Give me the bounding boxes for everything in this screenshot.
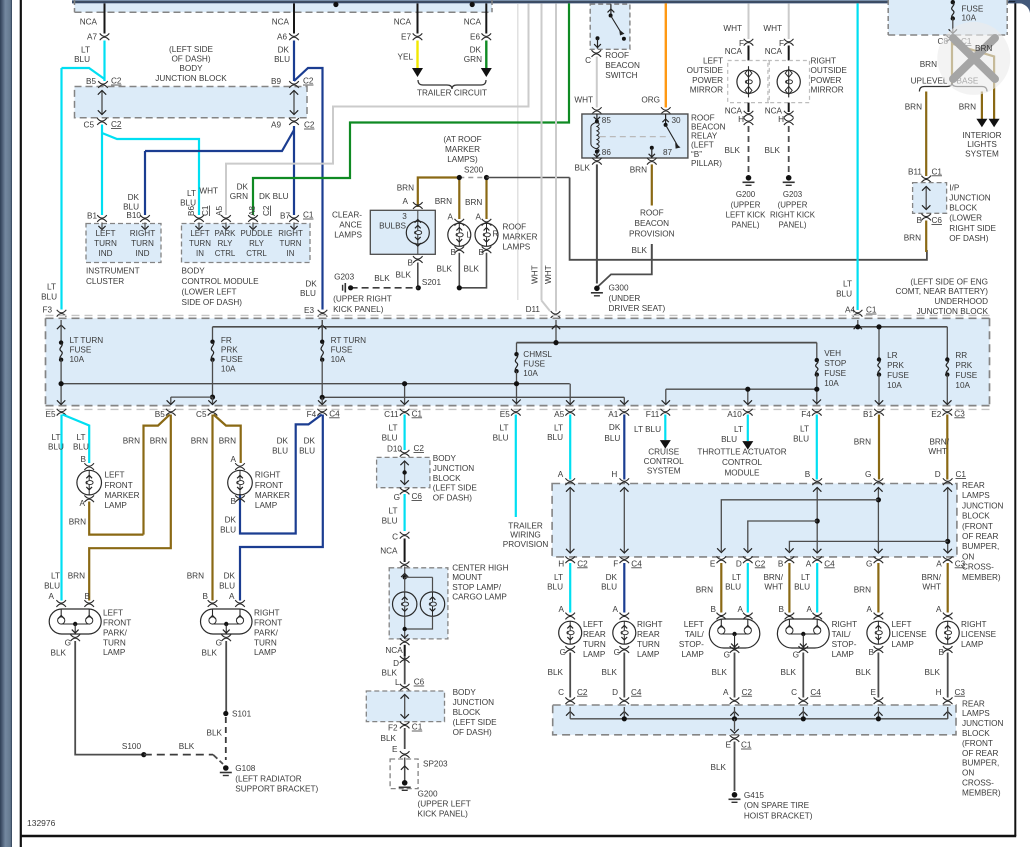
svg-text:FUSE: FUSE	[523, 360, 545, 369]
svg-text:JUNCTION: JUNCTION	[949, 194, 990, 203]
svg-text:G: G	[793, 650, 799, 659]
svg-text:E2: E2	[931, 410, 941, 419]
svg-text:SWITCH: SWITCH	[605, 71, 637, 80]
svg-text:G: G	[724, 650, 730, 659]
svg-text:TRAILER CIRCUIT: TRAILER CIRCUIT	[417, 89, 487, 98]
svg-text:OUTSIDE: OUTSIDE	[687, 66, 724, 75]
svg-text:RIGHT: RIGHT	[278, 229, 303, 238]
svg-text:MIRROR: MIRROR	[690, 86, 723, 95]
svg-text:IN: IN	[287, 249, 295, 258]
svg-text:FRONT: FRONT	[105, 481, 133, 490]
svg-text:LEFT: LEFT	[190, 229, 209, 238]
svg-text:I/P: I/P	[949, 183, 960, 192]
svg-text:PARK/: PARK/	[103, 628, 128, 637]
svg-text:CONTROL MODULE: CONTROL MODULE	[182, 277, 260, 286]
svg-text:DK: DK	[470, 46, 482, 55]
svg-text:MARKER: MARKER	[445, 145, 480, 154]
svg-text:NCA: NCA	[765, 47, 783, 56]
svg-text:KICK PANEL): KICK PANEL)	[333, 305, 384, 314]
svg-text:BRN: BRN	[150, 437, 167, 446]
svg-text:C4: C4	[631, 559, 642, 568]
svg-text:BLK: BLK	[712, 668, 728, 677]
svg-text:ROOF: ROOF	[691, 113, 715, 122]
svg-text:ORG: ORG	[641, 95, 660, 104]
svg-text:10A: 10A	[824, 379, 839, 388]
svg-text:LAMP: LAMP	[832, 650, 855, 659]
svg-text:CENTER HIGH: CENTER HIGH	[452, 564, 508, 573]
svg-text:NCA: NCA	[464, 18, 482, 27]
svg-text:CRUISE: CRUISE	[648, 447, 679, 456]
svg-text:B5: B5	[155, 410, 165, 419]
svg-text:IND: IND	[135, 249, 149, 258]
svg-text:REAR: REAR	[962, 481, 985, 490]
svg-text:DK: DK	[606, 573, 618, 582]
svg-text:C2: C2	[577, 559, 588, 568]
svg-text:TURN: TURN	[254, 638, 277, 647]
svg-text:FUSE: FUSE	[70, 346, 92, 355]
svg-text:TAIL/: TAIL/	[832, 630, 852, 639]
svg-text:10A: 10A	[887, 381, 902, 390]
svg-text:C2: C2	[742, 688, 753, 697]
svg-text:A: A	[403, 197, 409, 206]
svg-text:IN: IN	[196, 249, 204, 258]
svg-text:BLU: BLU	[219, 581, 235, 590]
svg-text:PARK/: PARK/	[254, 628, 279, 637]
svg-text:LICENSE: LICENSE	[892, 630, 928, 639]
svg-text:FRONT: FRONT	[255, 481, 283, 490]
svg-text:RT TURN: RT TURN	[331, 336, 367, 345]
svg-text:BLOCK: BLOCK	[962, 512, 990, 521]
svg-text:D11: D11	[526, 305, 541, 314]
svg-text:E5: E5	[45, 410, 55, 419]
svg-text:ANCE: ANCE	[339, 220, 362, 229]
svg-text:BRN: BRN	[630, 165, 647, 174]
svg-text:L: L	[395, 678, 400, 687]
svg-text:STOP-: STOP-	[679, 640, 704, 649]
svg-text:C2: C2	[304, 121, 315, 130]
svg-text:LR: LR	[887, 351, 898, 360]
svg-text:G: G	[614, 648, 620, 657]
svg-text:A: A	[559, 605, 565, 614]
svg-text:C: C	[791, 688, 797, 697]
svg-text:C1: C1	[303, 211, 314, 220]
svg-text:A5: A5	[554, 410, 564, 419]
svg-text:CLUSTER: CLUSTER	[86, 277, 124, 286]
svg-text:B: B	[408, 258, 414, 267]
svg-text:3: 3	[402, 212, 407, 221]
svg-text:B9: B9	[271, 77, 281, 86]
svg-text:B1: B1	[87, 212, 97, 221]
svg-text:(UPPER RIGHT: (UPPER RIGHT	[333, 295, 392, 304]
svg-text:POWER: POWER	[692, 76, 723, 85]
svg-text:H: H	[738, 115, 744, 124]
svg-text:BRN: BRN	[68, 572, 85, 581]
svg-text:D: D	[612, 688, 618, 697]
svg-text:DK: DK	[278, 46, 290, 55]
svg-text:ROOF: ROOF	[503, 222, 527, 231]
svg-text:OF DASH): OF DASH)	[171, 55, 210, 64]
svg-text:(LEFT SIDE OF ENG: (LEFT SIDE OF ENG	[910, 277, 988, 286]
svg-text:BRN: BRN	[187, 572, 204, 581]
svg-text:LT TURN: LT TURN	[70, 336, 104, 345]
svg-text:LICENSE: LICENSE	[961, 630, 997, 639]
svg-text:G: G	[216, 639, 222, 648]
svg-text:TAIL/: TAIL/	[685, 630, 705, 639]
svg-text:LEFT: LEFT	[95, 229, 115, 238]
svg-text:B1: B1	[863, 410, 873, 419]
svg-text:132976: 132976	[27, 818, 56, 828]
svg-text:C2: C2	[111, 77, 122, 86]
svg-text:RIGHT: RIGHT	[811, 57, 836, 66]
svg-text:B: B	[805, 470, 811, 479]
svg-text:LAMP: LAMP	[105, 501, 128, 510]
svg-text:UNDERHOOD: UNDERHOOD	[934, 297, 988, 306]
svg-text:FUSE: FUSE	[331, 346, 353, 355]
svg-text:RIGHT SIDE: RIGHT SIDE	[949, 224, 996, 233]
svg-text:BLU: BLU	[721, 435, 737, 444]
svg-text:LAMP: LAMP	[255, 501, 278, 510]
svg-text:PRK: PRK	[887, 361, 904, 370]
svg-text:LAMPS: LAMPS	[962, 709, 990, 718]
svg-text:NCA: NCA	[394, 18, 412, 27]
svg-text:BLK: BLK	[602, 668, 618, 677]
svg-text:A1: A1	[608, 410, 618, 419]
svg-text:B: B	[231, 497, 237, 506]
svg-text:OF DASH): OF DASH)	[949, 234, 988, 243]
svg-text:BLU: BLU	[493, 433, 509, 442]
svg-text:RLY: RLY	[249, 239, 265, 248]
svg-text:BLU: BLU	[382, 433, 398, 442]
svg-text:C2: C2	[414, 444, 425, 453]
svg-text:CHMSL: CHMSL	[523, 350, 552, 359]
svg-text:BLK: BLK	[179, 742, 195, 751]
svg-text:CTRL: CTRL	[215, 249, 236, 258]
svg-text:10A: 10A	[221, 364, 236, 373]
svg-text:BLK: BLK	[374, 274, 390, 283]
svg-text:OF DASH): OF DASH)	[453, 728, 492, 737]
svg-text:G: G	[65, 639, 71, 648]
svg-text:RIGHT: RIGHT	[130, 229, 155, 238]
svg-text:10A: 10A	[955, 381, 970, 390]
svg-text:VEH: VEH	[824, 349, 841, 358]
svg-text:BLK: BLK	[856, 668, 872, 677]
svg-text:BLOCK: BLOCK	[962, 729, 990, 738]
svg-text:(LEFT SIDE: (LEFT SIDE	[169, 45, 214, 54]
svg-text:RIGHT: RIGHT	[832, 620, 857, 629]
svg-text:86: 86	[602, 148, 612, 157]
svg-text:HOIST BRACKET): HOIST BRACKET)	[744, 811, 813, 820]
svg-text:C3: C3	[955, 559, 966, 568]
svg-text:(LEFT: (LEFT	[691, 141, 714, 150]
svg-text:C: C	[558, 688, 564, 697]
svg-text:A: A	[806, 559, 812, 568]
svg-text:BLU: BLU	[547, 433, 563, 442]
svg-text:C2: C2	[111, 120, 122, 129]
svg-text:(LEFT SIDE: (LEFT SIDE	[433, 484, 478, 493]
svg-text:WHT: WHT	[199, 187, 218, 196]
svg-text:B: B	[451, 248, 457, 257]
svg-text:CROSS-: CROSS-	[962, 779, 994, 788]
svg-text:OF DASH): OF DASH)	[433, 494, 472, 503]
svg-text:BRN/: BRN/	[921, 573, 941, 582]
svg-text:A: A	[80, 499, 86, 508]
svg-text:(LOWER: (LOWER	[949, 214, 982, 223]
svg-text:A10: A10	[727, 410, 742, 419]
svg-text:REAR: REAR	[962, 699, 985, 708]
svg-text:G415: G415	[744, 791, 764, 800]
svg-text:G300: G300	[609, 283, 629, 292]
svg-text:JUNCTION: JUNCTION	[962, 501, 1003, 510]
svg-text:C1: C1	[956, 470, 967, 479]
svg-text:BUMPER,: BUMPER,	[962, 759, 999, 768]
svg-text:CONTROL: CONTROL	[644, 457, 684, 466]
svg-text:BLU: BLU	[547, 583, 563, 592]
svg-text:B: B	[711, 605, 717, 614]
svg-text:LIGHTS: LIGHTS	[967, 140, 997, 149]
svg-text:CROSS-: CROSS-	[962, 563, 994, 572]
svg-text:LAMPS: LAMPS	[962, 491, 990, 500]
svg-text:LAMPS: LAMPS	[503, 243, 531, 252]
svg-text:BLK: BLK	[925, 668, 941, 677]
svg-text:A6: A6	[277, 33, 287, 42]
svg-text:BRN: BRN	[904, 233, 921, 242]
svg-text:RLY: RLY	[218, 239, 234, 248]
svg-text:10A: 10A	[962, 13, 977, 22]
svg-text:B: B	[939, 648, 945, 657]
svg-text:LT: LT	[47, 283, 56, 292]
svg-text:(UPPER: (UPPER	[731, 200, 761, 209]
svg-text:SYSTEM: SYSTEM	[647, 466, 681, 475]
svg-text:BLK: BLK	[437, 265, 453, 274]
svg-text:E5: E5	[500, 410, 510, 419]
svg-text:F: F	[613, 559, 618, 568]
svg-text:LAMP: LAMP	[682, 650, 705, 659]
svg-text:LT: LT	[800, 425, 809, 434]
svg-text:INSTRUMENT: INSTRUMENT	[86, 267, 140, 276]
svg-text:BODY: BODY	[179, 64, 203, 73]
svg-text:FRONT: FRONT	[103, 619, 131, 628]
svg-text:BLU: BLU	[44, 581, 60, 590]
svg-text:MEMBER): MEMBER)	[962, 573, 1001, 582]
svg-text:WHT: WHT	[723, 24, 742, 33]
svg-text:CONTROL: CONTROL	[722, 458, 762, 467]
svg-text:87: 87	[663, 148, 673, 157]
svg-text:LAMP: LAMP	[892, 640, 915, 649]
svg-text:JUNCTION: JUNCTION	[962, 719, 1003, 728]
svg-text:C: C	[585, 56, 591, 65]
svg-text:B: B	[778, 559, 784, 568]
svg-text:G203: G203	[783, 190, 803, 199]
svg-text:REAR: REAR	[637, 630, 660, 639]
svg-text:C1: C1	[201, 205, 210, 216]
svg-text:BLU: BLU	[601, 583, 617, 592]
svg-text:FUSE: FUSE	[221, 355, 243, 364]
svg-text:FUSE: FUSE	[824, 369, 846, 378]
svg-text:C4: C4	[631, 688, 642, 697]
svg-text:BLK: BLK	[632, 246, 648, 255]
svg-text:H: H	[778, 115, 784, 124]
svg-text:PRK: PRK	[955, 361, 972, 370]
svg-text:G: G	[865, 470, 871, 479]
svg-text:JUNCTION: JUNCTION	[433, 464, 474, 473]
svg-text:BLK: BLK	[202, 648, 218, 657]
svg-text:LT BLU: LT BLU	[634, 425, 661, 434]
svg-text:G: G	[394, 493, 400, 502]
svg-text:10A: 10A	[523, 369, 538, 378]
svg-text:NCA: NCA	[725, 47, 743, 56]
svg-text:BLK: BLK	[207, 729, 223, 738]
svg-text:B: B	[85, 592, 91, 601]
svg-text:F11: F11	[646, 410, 660, 419]
svg-text:TURN: TURN	[131, 239, 154, 248]
svg-text:PARK: PARK	[215, 229, 237, 238]
svg-text:BLU: BLU	[73, 443, 89, 452]
svg-text:C3: C3	[954, 409, 965, 418]
svg-text:BRN: BRN	[975, 44, 992, 53]
svg-text:WHT: WHT	[928, 447, 947, 456]
svg-text:L: L	[467, 230, 472, 239]
svg-text:WHT: WHT	[531, 265, 540, 284]
svg-text:TURN: TURN	[583, 640, 606, 649]
svg-text:FR: FR	[221, 336, 232, 345]
svg-text:G: G	[866, 559, 872, 568]
svg-text:H: H	[611, 470, 617, 479]
svg-text:H: H	[936, 688, 942, 697]
svg-text:C6: C6	[412, 492, 423, 501]
svg-text:LT: LT	[51, 572, 60, 581]
svg-text:C5: C5	[84, 121, 95, 130]
svg-text:S100: S100	[122, 742, 142, 751]
svg-text:BRN/: BRN/	[929, 437, 949, 446]
svg-text:BODY: BODY	[453, 688, 477, 697]
svg-text:A8: A8	[248, 206, 257, 216]
svg-text:TURN: TURN	[103, 638, 126, 647]
svg-text:C: C	[392, 532, 398, 541]
svg-text:A4: A4	[845, 306, 855, 315]
svg-text:SYSTEM: SYSTEM	[965, 149, 999, 158]
svg-text:A9: A9	[271, 121, 281, 130]
svg-text:D10: D10	[387, 445, 402, 454]
svg-text:CTRL: CTRL	[246, 249, 267, 258]
svg-text:C1: C1	[412, 409, 423, 418]
svg-text:LT: LT	[732, 573, 741, 582]
svg-text:KICK PANEL): KICK PANEL)	[418, 809, 469, 818]
svg-text:LAMP: LAMP	[583, 650, 606, 659]
svg-text:NCA: NCA	[380, 546, 398, 555]
svg-text:WIRING: WIRING	[510, 531, 540, 540]
svg-text:BRN: BRN	[696, 585, 713, 594]
svg-text:BLU: BLU	[74, 55, 90, 64]
svg-text:A: A	[231, 455, 237, 464]
svg-text:LAMP: LAMP	[637, 650, 660, 659]
svg-text:E3: E3	[304, 306, 314, 315]
svg-text:RIGHT: RIGHT	[255, 471, 280, 480]
svg-text:G108: G108	[235, 764, 255, 773]
svg-text:S101: S101	[232, 709, 252, 718]
svg-text:BLU: BLU	[41, 292, 57, 301]
svg-text:DRIVER SEAT): DRIVER SEAT)	[609, 304, 666, 313]
svg-text:SP203: SP203	[423, 759, 448, 768]
svg-text:BRN: BRN	[123, 437, 140, 446]
svg-text:BRN: BRN	[69, 517, 86, 526]
svg-text:ROOF: ROOF	[605, 51, 629, 60]
svg-text:C2: C2	[303, 77, 314, 86]
svg-text:NCA: NCA	[272, 18, 290, 27]
svg-text:LAMPS: LAMPS	[334, 230, 362, 239]
svg-text:MARKER: MARKER	[105, 491, 140, 500]
svg-text:BLOCK: BLOCK	[949, 204, 977, 213]
svg-text:BLK: BLK	[711, 763, 727, 772]
svg-text:CLEAR-: CLEAR-	[332, 210, 362, 219]
svg-text:BRN: BRN	[905, 103, 922, 112]
svg-text:LEFT: LEFT	[892, 620, 912, 629]
svg-text:B10: B10	[126, 211, 141, 220]
svg-text:SUPPORT BRACKET): SUPPORT BRACKET)	[235, 785, 318, 794]
svg-text:10A: 10A	[331, 355, 346, 364]
svg-text:FRONT: FRONT	[254, 619, 282, 628]
svg-text:LEFT: LEFT	[703, 57, 723, 66]
svg-text:LAMP: LAMP	[254, 648, 277, 657]
svg-text:BLOCK: BLOCK	[433, 474, 461, 483]
svg-text:DK: DK	[609, 423, 621, 432]
svg-text:BODY: BODY	[433, 454, 457, 463]
svg-text:POWER: POWER	[811, 76, 842, 85]
svg-text:C2: C2	[262, 205, 271, 216]
svg-text:C11: C11	[384, 410, 399, 419]
svg-text:E7: E7	[401, 33, 411, 42]
svg-text:LAMP: LAMP	[103, 648, 126, 657]
svg-text:TURN: TURN	[637, 640, 660, 649]
svg-text:BLK: BLK	[781, 668, 797, 677]
svg-text:(UPPER: (UPPER	[778, 200, 808, 209]
svg-text:GRN: GRN	[464, 55, 482, 64]
svg-text:JUNCTION BLOCK: JUNCTION BLOCK	[155, 74, 227, 83]
svg-text:IND: IND	[98, 249, 112, 258]
svg-text:RIGHT: RIGHT	[637, 620, 662, 629]
svg-text:LEFT: LEFT	[105, 471, 125, 480]
svg-text:A: A	[807, 605, 813, 614]
svg-text:RIGHT KICK: RIGHT KICK	[770, 211, 816, 220]
svg-text:C4: C4	[329, 409, 340, 418]
svg-text:E: E	[710, 559, 716, 568]
svg-text:MEMBER): MEMBER)	[962, 788, 1001, 797]
svg-text:DK: DK	[225, 516, 237, 525]
svg-text:BLU: BLU	[299, 446, 315, 455]
svg-text:TRAILER: TRAILER	[508, 521, 543, 530]
svg-text:BRN: BRN	[435, 197, 452, 206]
svg-text:WHT: WHT	[763, 24, 782, 33]
svg-text:BLU: BLU	[272, 446, 288, 455]
svg-text:BRN: BRN	[191, 437, 208, 446]
svg-text:A: A	[936, 559, 942, 568]
svg-text:DK: DK	[305, 279, 317, 288]
svg-text:BLU: BLU	[793, 434, 809, 443]
svg-text:BULBS: BULBS	[379, 222, 406, 231]
svg-text:BLK: BLK	[725, 146, 741, 155]
svg-text:(FRONT: (FRONT	[962, 522, 993, 531]
svg-text:H: H	[558, 559, 564, 568]
svg-text:LAMPS): LAMPS)	[447, 155, 478, 164]
svg-text:YEL: YEL	[398, 53, 414, 62]
svg-text:S201: S201	[422, 278, 442, 287]
svg-text:JUNCTION BLOCK: JUNCTION BLOCK	[917, 307, 989, 316]
svg-text:A: A	[558, 470, 564, 479]
svg-text:BEACON: BEACON	[605, 61, 640, 70]
svg-text:C1: C1	[741, 741, 752, 750]
svg-text:G200: G200	[736, 190, 756, 199]
svg-text:C4: C4	[824, 559, 835, 568]
svg-text:B: B	[779, 605, 785, 614]
